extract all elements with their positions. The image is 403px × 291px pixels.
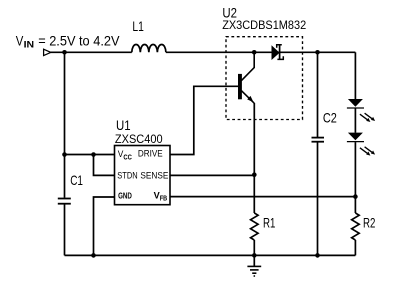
label U1 — [116, 117, 131, 133]
wire VFB pin to R2/LED node — [170, 196, 355, 198]
pin label DRIVE — [138, 149, 163, 160]
pin label VCC — [118, 149, 132, 161]
wire LED cathode down to VFB node — [354, 142, 356, 213]
wire R2 bottom — [354, 240, 356, 255]
LED D3 emission arrows — [360, 147, 375, 156]
node R1 rail junction — [252, 253, 257, 258]
wire bottom rail — [65, 254, 356, 256]
label ZXSC400 — [115, 134, 163, 146]
op-amp U1 box ZXSC400 — [115, 146, 171, 205]
pin label VFB — [154, 190, 168, 202]
svg-text:ZXSC400: ZXSC400 — [115, 134, 163, 146]
LED D2 — [347, 99, 364, 108]
wire DRIVE pin to transistor base — [170, 86, 238, 154]
node C2 rail junction — [315, 253, 320, 258]
input port triangle — [44, 49, 51, 55]
wire R1 bottom — [253, 240, 255, 255]
wire C1 lower — [64, 204, 66, 255]
svg-text:SENSE: SENSE — [140, 171, 168, 182]
transistor Q1 collector — [241, 52, 254, 80]
node collector junction — [252, 50, 257, 55]
node VFB junction — [353, 194, 358, 199]
label L1 — [132, 18, 144, 34]
wire emitter vertical to R1 — [253, 103, 255, 213]
svg-text:IN: IN — [24, 40, 35, 51]
pin label SENSE — [140, 171, 168, 182]
svg-text:DRIVE: DRIVE — [138, 149, 163, 160]
node GND rail junction — [91, 253, 96, 258]
svg-text:ZX3CDBS1M832: ZX3CDBS1M832 — [222, 18, 306, 32]
wire C2 vertical upper — [317, 52, 319, 137]
svg-text:L1: L1 — [132, 18, 144, 34]
pin label STDN — [117, 171, 137, 182]
svg-text:C2: C2 — [323, 110, 337, 126]
pin label GND — [118, 190, 132, 200]
schottky diode D1 — [272, 45, 284, 60]
svg-text:CC: CC — [123, 154, 131, 161]
label VIN = 2.5V to 4.2V — [16, 32, 120, 50]
resistor R1 — [251, 213, 259, 240]
wire LED branch vertical top — [354, 52, 356, 99]
svg-text:R1: R1 — [263, 215, 276, 231]
inductor L1 — [132, 44, 166, 52]
wire top rail — [51, 51, 356, 53]
node C2 top junction — [315, 50, 320, 55]
LED D2 emission arrows — [360, 113, 375, 122]
label C1 — [70, 172, 83, 188]
node VIN junction — [62, 50, 67, 55]
wire VCC pin to VIN rail — [65, 154, 115, 156]
ground — [247, 255, 261, 277]
wire SENSE pin to emitter node — [170, 174, 254, 176]
svg-text:= 2.5V to 4.2V: = 2.5V to 4.2V — [38, 32, 120, 48]
transistor Q1 emitter — [241, 91, 254, 104]
svg-text:C1: C1 — [70, 172, 83, 188]
svg-text:FB: FB — [160, 196, 167, 203]
wire GND pin down to bottom rail — [94, 197, 115, 255]
svg-text:STDN: STDN — [117, 171, 137, 182]
U2 dashed module box — [226, 37, 303, 120]
svg-text:R2: R2 — [363, 215, 376, 231]
label R2 — [363, 215, 376, 231]
wire STDN pin — [94, 155, 115, 176]
label C2 — [323, 110, 337, 126]
LED D3 — [347, 133, 364, 142]
node SENSE emitter junction — [252, 172, 257, 177]
wire C2 vertical lower — [317, 142, 319, 255]
label ZX3CDBS1M832 — [222, 18, 306, 32]
transistor Q1 base bar — [238, 74, 242, 99]
label U2 — [222, 4, 237, 20]
node STDN tap — [91, 152, 96, 157]
svg-text:GND: GND — [118, 190, 132, 200]
capacitor C2 — [312, 138, 325, 142]
capacitor C1 — [58, 199, 71, 204]
node VCC tap on VIN vertical — [62, 152, 67, 157]
wire left vertical (VIN down to C1) — [64, 52, 66, 198]
svg-text:U1: U1 — [116, 117, 131, 133]
wire between LEDs — [354, 109, 356, 133]
resistor R2 — [352, 213, 360, 240]
label R1 — [263, 215, 276, 231]
